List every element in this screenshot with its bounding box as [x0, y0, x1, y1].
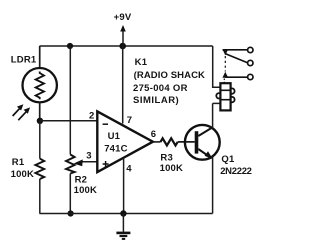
svg-text:741C: 741C — [104, 143, 128, 154]
relay armature contact arrow upper — [222, 49, 228, 55]
photoresistor LDR1 — [23, 68, 57, 102]
wire top +9V bus — [40, 45, 213, 47]
node junction bus/R2 — [67, 43, 73, 49]
light arrow 2 — [18, 107, 30, 120]
svg-text:R1: R1 — [12, 157, 25, 168]
wire LDR1 top lead — [39, 46, 41, 68]
light arrow 1 — [13, 104, 24, 116]
node junction bus/+9V/pin7 — [119, 43, 126, 50]
wire op-amp pin 7 riser — [122, 46, 124, 124]
relay armature contact arrow lower — [222, 72, 228, 78]
svg-text:R3: R3 — [160, 152, 173, 163]
node junction LDR1/R1/pin2 — [37, 118, 43, 124]
ground — [116, 214, 130, 239]
op-amp minus sign — [103, 123, 108, 125]
relay contact line to terminal — [225, 76, 247, 78]
wire emitter drop — [212, 156, 214, 213]
node junction R2/bottom rail — [68, 210, 74, 216]
potentiometer R2 — [66, 155, 75, 214]
wire op-amp pin 4 riser — [123, 158, 125, 214]
node junction pin4/rail/ground — [120, 210, 126, 216]
wire coil bottom to collector — [213, 102, 221, 104]
svg-text:275-004 OR: 275-004 OR — [133, 83, 188, 94]
svg-text:100K: 100K — [74, 185, 98, 196]
svg-text:+9V: +9V — [114, 12, 132, 23]
wire collector riser — [212, 103, 214, 128]
relay terminal circle top — [248, 47, 253, 52]
svg-text:6: 6 — [151, 129, 156, 140]
relay terminal circle middle — [248, 60, 253, 65]
svg-text:LDR1: LDR1 — [11, 55, 37, 66]
svg-text:4: 4 — [126, 163, 132, 174]
wire relay feed from bus — [213, 46, 221, 87]
svg-text:3: 3 — [86, 150, 91, 161]
relay K1 coil — [216, 83, 234, 110]
svg-text:100K: 100K — [11, 169, 35, 180]
relay terminal circle bottom — [248, 74, 253, 79]
transistor Q1 — [185, 125, 220, 160]
relay mechanical link dashed — [224, 56, 226, 72]
svg-text:Q1: Q1 — [221, 154, 235, 165]
op-amp U1 741C — [97, 111, 153, 172]
R2 wiper arrow — [74, 159, 98, 166]
power +9V arrow — [120, 25, 126, 46]
svg-text:100K: 100K — [160, 163, 184, 174]
resistor R3 — [161, 138, 195, 145]
relay contact line to NC terminal — [223, 49, 248, 51]
svg-text:2N2222: 2N2222 — [220, 166, 251, 177]
wire op-amp pin 6 lead — [153, 141, 161, 143]
svg-text:K1: K1 — [135, 57, 148, 68]
svg-text:7: 7 — [127, 115, 132, 126]
resistor R1 — [35, 121, 44, 214]
svg-text:U1: U1 — [108, 131, 121, 142]
svg-text:SIMILAR): SIMILAR) — [133, 95, 179, 106]
relay link to coil dashed — [223, 79, 225, 83]
svg-text:(RADIO SHACK: (RADIO SHACK — [134, 70, 205, 81]
wire bottom ground rail — [40, 213, 213, 215]
wire LDR1 bottom lead — [39, 102, 41, 121]
op-amp plus sign — [103, 161, 109, 167]
wire R2 top lead — [69, 46, 71, 155]
relay moving arm to NO terminal — [225, 54, 248, 63]
wire to op-amp pin 2 — [40, 120, 98, 122]
svg-text:2: 2 — [89, 110, 94, 121]
